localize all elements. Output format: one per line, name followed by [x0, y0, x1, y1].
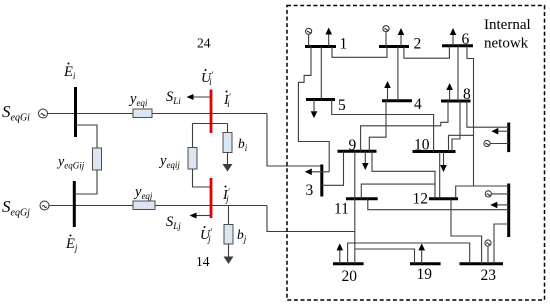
- svg-text:yeqGij: yeqGij: [56, 155, 85, 171]
- wire I_i' to bus 3: [267, 114, 322, 167]
- svg-text:24: 24: [197, 36, 211, 51]
- bus 20: [333, 262, 364, 265]
- bus U_i' (red): [210, 90, 213, 134]
- capacitor b_i: [223, 133, 232, 153]
- arrow into upper right bus: [491, 128, 508, 135]
- ground j: [224, 257, 234, 265]
- wire line 12 to lower right bus: [456, 186, 509, 199]
- svg-text:4: 4: [414, 96, 422, 113]
- svg-text:2: 2: [414, 36, 422, 53]
- bus 2: [379, 45, 409, 48]
- bus 11: [346, 197, 378, 200]
- svg-text:1: 1: [340, 36, 348, 53]
- label U_j': [200, 226, 213, 244]
- wire line 8-9: [361, 101, 448, 151]
- svg-text:8: 8: [463, 86, 471, 103]
- bus 19: [410, 262, 441, 265]
- svg-text:23: 23: [481, 267, 497, 284]
- wire line 12-23: [451, 199, 482, 264]
- svg-text:Internal: Internal: [484, 17, 531, 33]
- wire line 9-3: [322, 151, 344, 185]
- arrow injection bus 1: [325, 28, 332, 47]
- bus 6: [442, 44, 473, 47]
- svg-text:12: 12: [413, 191, 429, 208]
- dashed boundary box: [287, 6, 545, 301]
- wire line 8-10: [452, 101, 460, 152]
- arrow load bus 3: [305, 169, 329, 176]
- wire line 2-4: [397, 47, 399, 101]
- wire line 20-19: [355, 249, 415, 264]
- source G_eqj: [40, 201, 49, 210]
- generator at bus 23: [485, 240, 491, 264]
- arrow into lower right bus: [490, 202, 508, 209]
- svg-text:yeqi: yeqi: [128, 91, 148, 108]
- svg-text:yeqij: yeqij: [158, 153, 180, 170]
- wire line 9-11-20: [354, 151, 356, 263]
- svg-text:SLj: SLj: [166, 214, 181, 231]
- wire line 1-3: [298, 47, 329, 172]
- wire b_j to ground: [228, 244, 230, 257]
- svg-text:SLi: SLi: [166, 89, 181, 106]
- wire branch 6-10: [449, 135, 474, 151]
- resistor y_eqi: [133, 109, 152, 118]
- svg-text:I′i: I′i: [223, 92, 232, 109]
- capacitor b_j: [224, 225, 233, 245]
- svg-text:10: 10: [414, 137, 430, 154]
- label I_i': [223, 91, 232, 110]
- wire resistor y_eqi to node Ui to node corner: [152, 113, 267, 115]
- svg-text:5: 5: [338, 97, 346, 114]
- arrow injection bus 19: [418, 243, 425, 263]
- arrow injection bus 4: [384, 81, 391, 101]
- wire to y_eqij top: [192, 124, 194, 148]
- arrow S_Li: [187, 94, 211, 100]
- svg-text:U′i: U′i: [201, 70, 214, 87]
- svg-text:netowk: netowk: [484, 36, 529, 52]
- resistor y_eqGij: [93, 148, 102, 170]
- wire resistor y_eqj to node Uj to corner: [155, 205, 267, 207]
- arrow injection bus 6: [450, 28, 457, 46]
- bus 10: [413, 150, 456, 153]
- generator at upper right bus: [484, 140, 509, 146]
- svg-text:Ei: Ei: [63, 64, 76, 81]
- wire bus Ei to y_eqGij: [76, 125, 98, 148]
- svg-text:SeqGj: SeqGj: [2, 197, 30, 219]
- arrow injection bus 20: [337, 243, 344, 263]
- bus 3 (vertical): [320, 165, 323, 197]
- svg-text:yeqj: yeqj: [133, 184, 153, 201]
- wire line 6 to right column: [467, 46, 474, 186]
- resistor y_eqij: [188, 148, 197, 170]
- bus 9: [338, 150, 377, 153]
- bus 23: [460, 262, 504, 265]
- generator at bus 2: [383, 26, 389, 47]
- label U_i': [201, 69, 214, 87]
- label I_j': [222, 186, 231, 205]
- bus 1: [305, 45, 336, 48]
- svg-text:11: 11: [334, 201, 349, 218]
- wire y_eqGij to bus Ej: [74, 170, 97, 194]
- bus 12: [429, 197, 458, 200]
- bus 8: [441, 100, 471, 103]
- svg-text:SeqGi: SeqGi: [2, 102, 30, 124]
- wire to b_i: [227, 124, 229, 133]
- arrow injection bus 8: [446, 83, 453, 101]
- ground i: [223, 164, 233, 172]
- equivalent bus lower right: [507, 184, 510, 238]
- wire line 9-12: [372, 151, 435, 199]
- resistor y_eqj: [133, 201, 155, 210]
- bus U_j' (red): [210, 178, 213, 218]
- wire source-j to bus Ej to resistor y_eqj: [49, 205, 133, 207]
- wire line 20-23: [348, 243, 470, 264]
- wire line 10-12: [439, 152, 441, 199]
- svg-text:bj: bj: [237, 227, 247, 244]
- wire line 6-8: [457, 46, 459, 101]
- equivalent bus upper right: [507, 123, 510, 153]
- svg-text:19: 19: [417, 266, 433, 283]
- wire line 4-9: [369, 101, 386, 152]
- arrow load bus 9: [362, 151, 369, 170]
- svg-text:Ej: Ej: [65, 236, 78, 253]
- generator at lower right bus: [485, 191, 509, 197]
- svg-text:bi: bi: [238, 136, 248, 153]
- bus Ei: [74, 87, 77, 137]
- wire line 8 to upper right bus: [467, 101, 509, 127]
- wire line 11-12: [361, 184, 435, 199]
- arrow injection bus 2: [398, 28, 405, 47]
- wire to b_j: [228, 206, 230, 225]
- wire line 2-6: [404, 46, 450, 59]
- arrow load bus 5: [311, 100, 318, 119]
- label E_j: [65, 235, 78, 254]
- wire y_eqij bottom to bus Uj: [193, 169, 211, 187]
- generator at bus 1: [306, 28, 312, 46]
- wire source-i to bus Ei to resistor y_eqi: [48, 113, 134, 115]
- wire I_j' to internal network: [267, 206, 355, 232]
- bus 5: [306, 98, 335, 101]
- svg-text:6: 6: [462, 31, 470, 48]
- source G_eqi: [39, 109, 48, 118]
- svg-text:14: 14: [196, 254, 210, 269]
- label E_i: [63, 63, 76, 82]
- bus 4: [382, 99, 412, 102]
- wire lower right bus to 23: [494, 224, 509, 264]
- wire line 1-2: [332, 47, 387, 58]
- svg-text:20: 20: [342, 268, 358, 285]
- wire line 1-5: [320, 47, 322, 100]
- wire line 11 to lower right bus: [368, 199, 509, 210]
- wire b_i to ground: [227, 153, 229, 165]
- svg-text:3: 3: [306, 182, 314, 199]
- arrow S_Lj: [190, 213, 211, 219]
- svg-text:U′j: U′j: [200, 227, 213, 244]
- arrow load bus 10: [440, 152, 447, 173]
- wire shunt branch header i: [193, 123, 228, 125]
- svg-text:I′j: I′j: [222, 187, 231, 204]
- wire line 5-10: [332, 100, 434, 152]
- bus Ej: [73, 181, 76, 227]
